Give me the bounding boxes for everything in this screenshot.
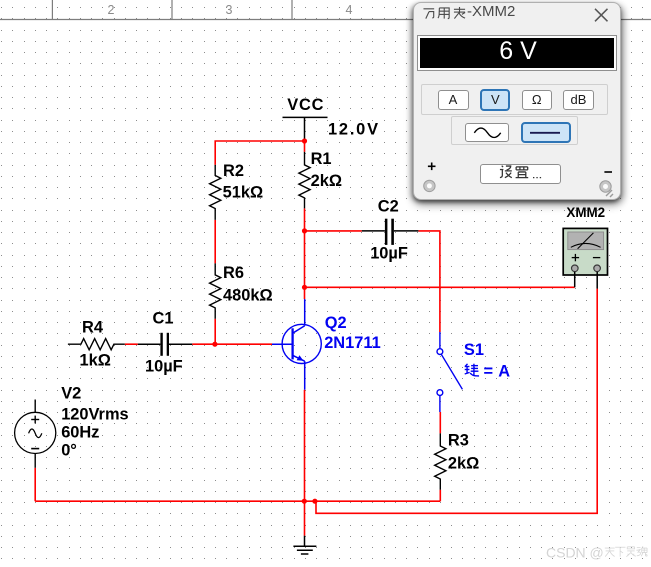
svg-text:10µF: 10µF [370,245,408,263]
terminal plus [424,180,435,191]
S1 key label 键 = A [465,364,479,376]
svg-text:3: 3 [226,3,233,17]
button DC selected [521,122,571,143]
display [417,35,617,71]
resistor R3 [435,433,446,489]
wire C2 row left [305,230,362,232]
wire C1 to base junction [192,343,272,345]
ruler tick 2 [171,0,173,20]
wire R3 bottom lead red [439,490,441,502]
button sine [465,123,510,142]
dialog title [422,5,482,22]
plus label [428,163,436,171]
svg-text:0°: 0° [61,441,77,459]
wire C2 right to switch column [418,231,440,332]
group buttons [421,84,608,115]
svg-text:2N1711: 2N1711 [324,334,381,352]
VCC power symbol [283,117,328,138]
resistor R1 [299,152,310,209]
svg-text:12.0V: 12.0V [328,121,380,139]
wire bottom row V2 to R3 [35,500,440,502]
transistor Q2 [272,299,321,390]
wire R6 bottom to input junction [214,319,216,345]
capacitor C2 [362,219,419,245]
svg-text:XMM2: XMM2 [566,205,605,220]
svg-text:C2: C2 [378,197,399,215]
terminal minus [600,181,611,192]
wire XMM2 minus down and across bottom [316,289,597,514]
button A [438,90,469,110]
resistor R4 [68,339,125,350]
svg-text:4: 4 [346,3,353,17]
resize grip [606,190,613,197]
multimeter dialog [413,2,621,200]
sine symbol [474,128,500,137]
settings text [500,166,541,178]
ruler tick 1 [51,0,53,20]
wire VCC-junction to R2 top corner [215,141,304,165]
svg-text:S1: S1 [464,341,484,359]
group waveform [451,116,578,145]
svg-text:R1: R1 [311,150,332,168]
multimeter XMM2 icon [563,228,607,288]
ruler bottom line [0,19,651,21]
junction XMM plus row [302,285,307,290]
svg-text:CSDN @: CSDN @ [546,545,604,561]
wire V2 bottom red [34,468,36,501]
svg-text:R4: R4 [82,319,104,337]
junction VCC [302,138,307,143]
resistor R6 [210,263,221,318]
resistor R2 [210,165,221,220]
DC symbol [530,132,560,134]
junction input/base [212,342,217,347]
switch S1 [437,332,462,412]
svg-text:R2: R2 [223,162,244,180]
junction bottom branch [312,499,317,504]
dialog overlay symbols [414,3,620,199]
svg-text:2kΩ: 2kΩ [448,455,479,473]
button Ohm [522,90,552,110]
svg-text:VCC: VCC [287,96,324,114]
wire emitter down to bottom junction [304,390,306,536]
wire R2 bottom to R6 top [214,220,216,264]
wire R1 bottom to collector [304,208,306,299]
svg-text:1kΩ: 1kΩ [80,351,111,369]
svg-text:C1: C1 [153,309,174,327]
junction C2 row [302,228,307,233]
wire collector row to XMM2 plus [305,286,575,288]
button dB [563,90,594,110]
AC source V2 [15,400,56,468]
svg-text:Q2: Q2 [325,314,347,332]
junction bottom emitter [302,499,307,504]
close X [595,9,608,21]
svg-text:480kΩ: 480kΩ [223,286,273,304]
svg-text:10µF: 10µF [145,357,183,375]
svg-text:51kΩ: 51kΩ [223,184,264,202]
button V selected [480,89,510,111]
minus label [604,171,612,173]
wire switch bottom to R3 top [439,412,441,433]
svg-text:R3: R3 [448,432,469,450]
settings button [480,164,561,184]
svg-text:120Vrms: 120Vrms [61,406,128,424]
svg-text:= A: = A [484,363,511,381]
ground [293,536,316,554]
svg-text:R6: R6 [223,264,244,282]
wire VCC bar lead red below dot [304,139,306,152]
svg-text:V2: V2 [61,385,81,403]
capacitor C1 [138,333,192,356]
svg-text:2kΩ: 2kΩ [311,172,342,190]
svg-text:2: 2 [108,3,115,17]
svg-text:60Hz: 60Hz [61,424,99,442]
ruler tick 3 [291,0,293,20]
wire R4 to C1 [125,343,138,345]
